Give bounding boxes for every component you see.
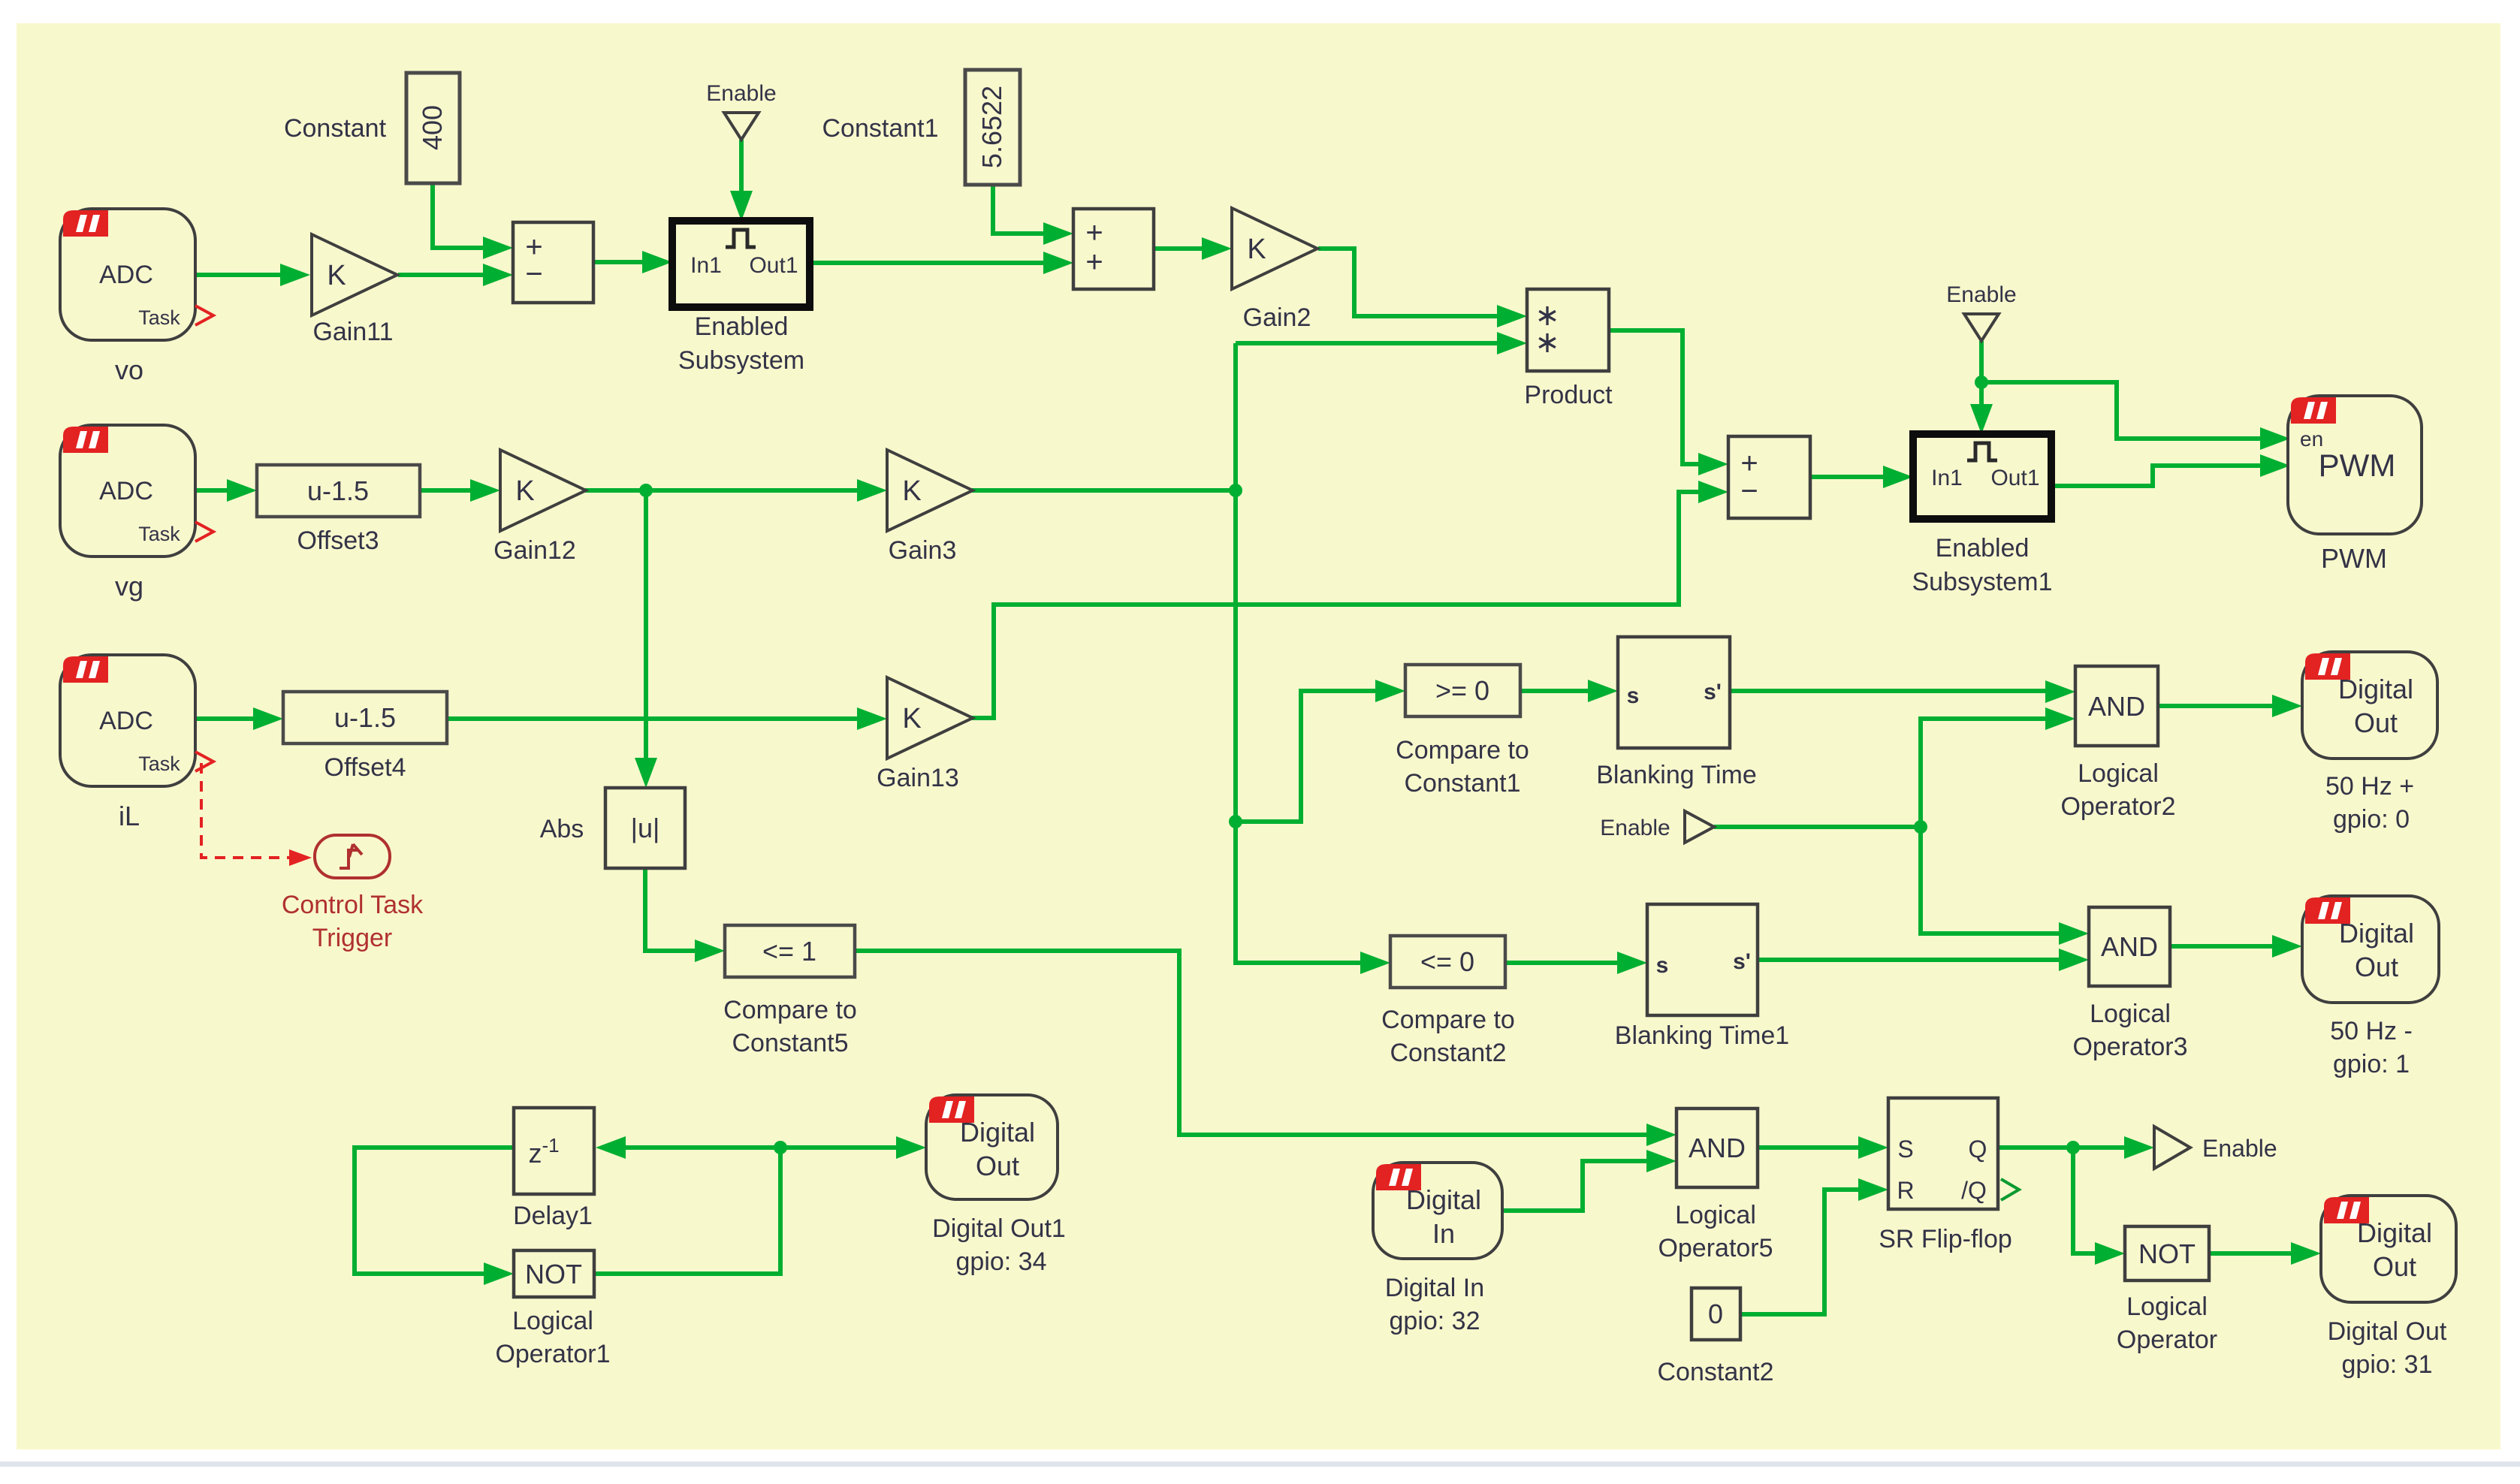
svg-text:Compare to: Compare to xyxy=(723,996,857,1024)
svg-text:Digital: Digital xyxy=(2339,918,2414,949)
svg-text:Logical: Logical xyxy=(2126,1292,2208,1321)
svg-text:<= 1: <= 1 xyxy=(762,936,816,967)
svg-text:/Q: /Q xyxy=(1961,1177,1987,1204)
svg-text:50 Hz -: 50 Hz - xyxy=(2330,1017,2413,1045)
svg-text:s': s' xyxy=(1704,680,1722,704)
svg-text:Logical: Logical xyxy=(2090,1000,2171,1028)
svg-text:Enable: Enable xyxy=(2202,1135,2277,1162)
svg-text:Gain2: Gain2 xyxy=(1243,303,1311,332)
svg-text:Constant: Constant xyxy=(284,114,387,143)
svg-text:K: K xyxy=(515,475,534,507)
svg-text:Enabled: Enabled xyxy=(1936,534,2030,563)
svg-text:−: − xyxy=(525,258,542,291)
svg-text:Digital: Digital xyxy=(2338,674,2413,704)
svg-text:Digital In: Digital In xyxy=(1385,1274,1484,1302)
svg-text:Operator: Operator xyxy=(2117,1326,2217,1354)
svg-text:Offset4: Offset4 xyxy=(324,753,406,782)
svg-text:Out: Out xyxy=(2354,707,2398,738)
svg-text:gpio: 34: gpio: 34 xyxy=(956,1247,1047,1276)
svg-text:Delay1: Delay1 xyxy=(513,1202,593,1230)
svg-text:R: R xyxy=(1897,1177,1914,1204)
svg-text:K: K xyxy=(902,703,921,734)
svg-text:K: K xyxy=(1247,234,1266,265)
svg-text:u-1.5: u-1.5 xyxy=(334,702,396,733)
svg-text:Enabled: Enabled xyxy=(695,312,789,341)
svg-text:+: + xyxy=(1085,246,1103,279)
svg-text:+: + xyxy=(1085,216,1103,249)
svg-text:Task: Task xyxy=(138,523,180,545)
svg-text:Constant2: Constant2 xyxy=(1658,1358,1774,1386)
svg-text:vg: vg xyxy=(115,571,143,602)
svg-text:Digital Out: Digital Out xyxy=(2328,1317,2447,1346)
svg-text:vo: vo xyxy=(115,354,143,385)
svg-text:Gain13: Gain13 xyxy=(877,764,959,792)
svg-text:∗: ∗ xyxy=(1535,326,1560,359)
svg-text:ADC: ADC xyxy=(99,261,153,289)
svg-text:Logical: Logical xyxy=(512,1307,593,1335)
svg-text:Constant5: Constant5 xyxy=(732,1029,849,1057)
svg-text:Enable: Enable xyxy=(1600,816,1670,840)
svg-text:S: S xyxy=(1897,1136,1913,1163)
svg-text:Blanking Time1: Blanking Time1 xyxy=(1615,1021,1789,1050)
svg-text:K: K xyxy=(327,260,346,291)
svg-text:K: K xyxy=(902,475,921,507)
svg-text:SR Flip-flop: SR Flip-flop xyxy=(1879,1225,2012,1253)
svg-text:Out1: Out1 xyxy=(1990,466,2039,490)
svg-text:gpio: 0: gpio: 0 xyxy=(2333,805,2410,834)
svg-text:NOT: NOT xyxy=(2138,1238,2196,1269)
svg-text:Out: Out xyxy=(976,1151,1019,1181)
svg-text:Digital Out1: Digital Out1 xyxy=(932,1214,1066,1243)
svg-text:s: s xyxy=(1656,953,1669,978)
svg-text:PWM: PWM xyxy=(2319,448,2396,483)
svg-text:Product: Product xyxy=(1524,381,1613,409)
svg-text:Logical: Logical xyxy=(1675,1201,1756,1229)
svg-text:Enable: Enable xyxy=(1946,282,2016,307)
svg-text:Operator2: Operator2 xyxy=(2060,792,2175,821)
svg-text:Compare to: Compare to xyxy=(1381,1006,1515,1034)
svg-text:50 Hz +: 50 Hz + xyxy=(2325,772,2414,801)
svg-text:In1: In1 xyxy=(690,253,722,278)
svg-text:PWM: PWM xyxy=(2321,543,2387,574)
svg-text:u-1.5: u-1.5 xyxy=(307,475,369,506)
svg-text:Operator5: Operator5 xyxy=(1658,1234,1773,1262)
svg-text:Logical: Logical xyxy=(2078,759,2159,788)
svg-text:Control Task: Control Task xyxy=(282,891,424,919)
svg-text:gpio: 32: gpio: 32 xyxy=(1390,1307,1480,1335)
svg-text:Subsystem1: Subsystem1 xyxy=(1912,568,2052,596)
svg-text:gpio: 1: gpio: 1 xyxy=(2333,1050,2410,1078)
svg-text:Operator3: Operator3 xyxy=(2072,1033,2187,1061)
svg-text:Enable: Enable xyxy=(706,81,776,106)
svg-text:In1: In1 xyxy=(1931,466,1963,490)
svg-text:Digital: Digital xyxy=(2357,1217,2432,1248)
svg-text:400: 400 xyxy=(417,105,448,150)
svg-text:Constant2: Constant2 xyxy=(1390,1039,1507,1067)
svg-text:−: − xyxy=(1740,475,1758,508)
svg-text:Trigger: Trigger xyxy=(312,924,392,952)
svg-text:Constant1: Constant1 xyxy=(1405,769,1521,798)
svg-text:Out: Out xyxy=(2355,952,2398,982)
svg-text:Out: Out xyxy=(2373,1251,2416,1282)
svg-text:Q: Q xyxy=(1969,1136,1987,1163)
svg-text:5.6522: 5.6522 xyxy=(976,86,1007,168)
svg-text:0: 0 xyxy=(1708,1298,1723,1329)
svg-text:iL: iL xyxy=(119,801,140,831)
svg-text:Abs: Abs xyxy=(540,815,584,843)
svg-text:s: s xyxy=(1627,683,1640,708)
svg-text:Digital: Digital xyxy=(1406,1184,1481,1215)
svg-text:s': s' xyxy=(1733,949,1751,974)
svg-text:gpio: 31: gpio: 31 xyxy=(2342,1350,2433,1379)
svg-text:Constant1: Constant1 xyxy=(822,114,939,143)
svg-text:Gain3: Gain3 xyxy=(889,536,957,565)
svg-text:Task: Task xyxy=(138,306,180,329)
svg-text:>= 0: >= 0 xyxy=(1435,675,1489,706)
svg-text:Task: Task xyxy=(138,753,180,775)
svg-text:In: In xyxy=(1432,1218,1455,1249)
svg-text:AND: AND xyxy=(1689,1133,1746,1163)
svg-text:AND: AND xyxy=(2101,931,2158,962)
svg-text:ADC: ADC xyxy=(99,477,153,505)
svg-text:Subsystem: Subsystem xyxy=(678,346,804,375)
svg-text:NOT: NOT xyxy=(525,1259,582,1289)
svg-text:Gain12: Gain12 xyxy=(493,536,576,565)
svg-text:Blanking Time: Blanking Time xyxy=(1596,761,1757,789)
svg-text:Out1: Out1 xyxy=(749,253,798,278)
svg-text:<= 0: <= 0 xyxy=(1420,946,1474,977)
svg-text:Gain11: Gain11 xyxy=(312,318,393,346)
svg-text:Digital: Digital xyxy=(960,1117,1035,1148)
svg-text:|u|: |u| xyxy=(631,813,660,843)
svg-text:ADC: ADC xyxy=(99,707,153,735)
svg-text:AND: AND xyxy=(2088,691,2145,722)
svg-text:Operator1: Operator1 xyxy=(495,1340,610,1368)
svg-text:Offset3: Offset3 xyxy=(297,526,379,555)
svg-text:Compare to: Compare to xyxy=(1396,736,1529,765)
